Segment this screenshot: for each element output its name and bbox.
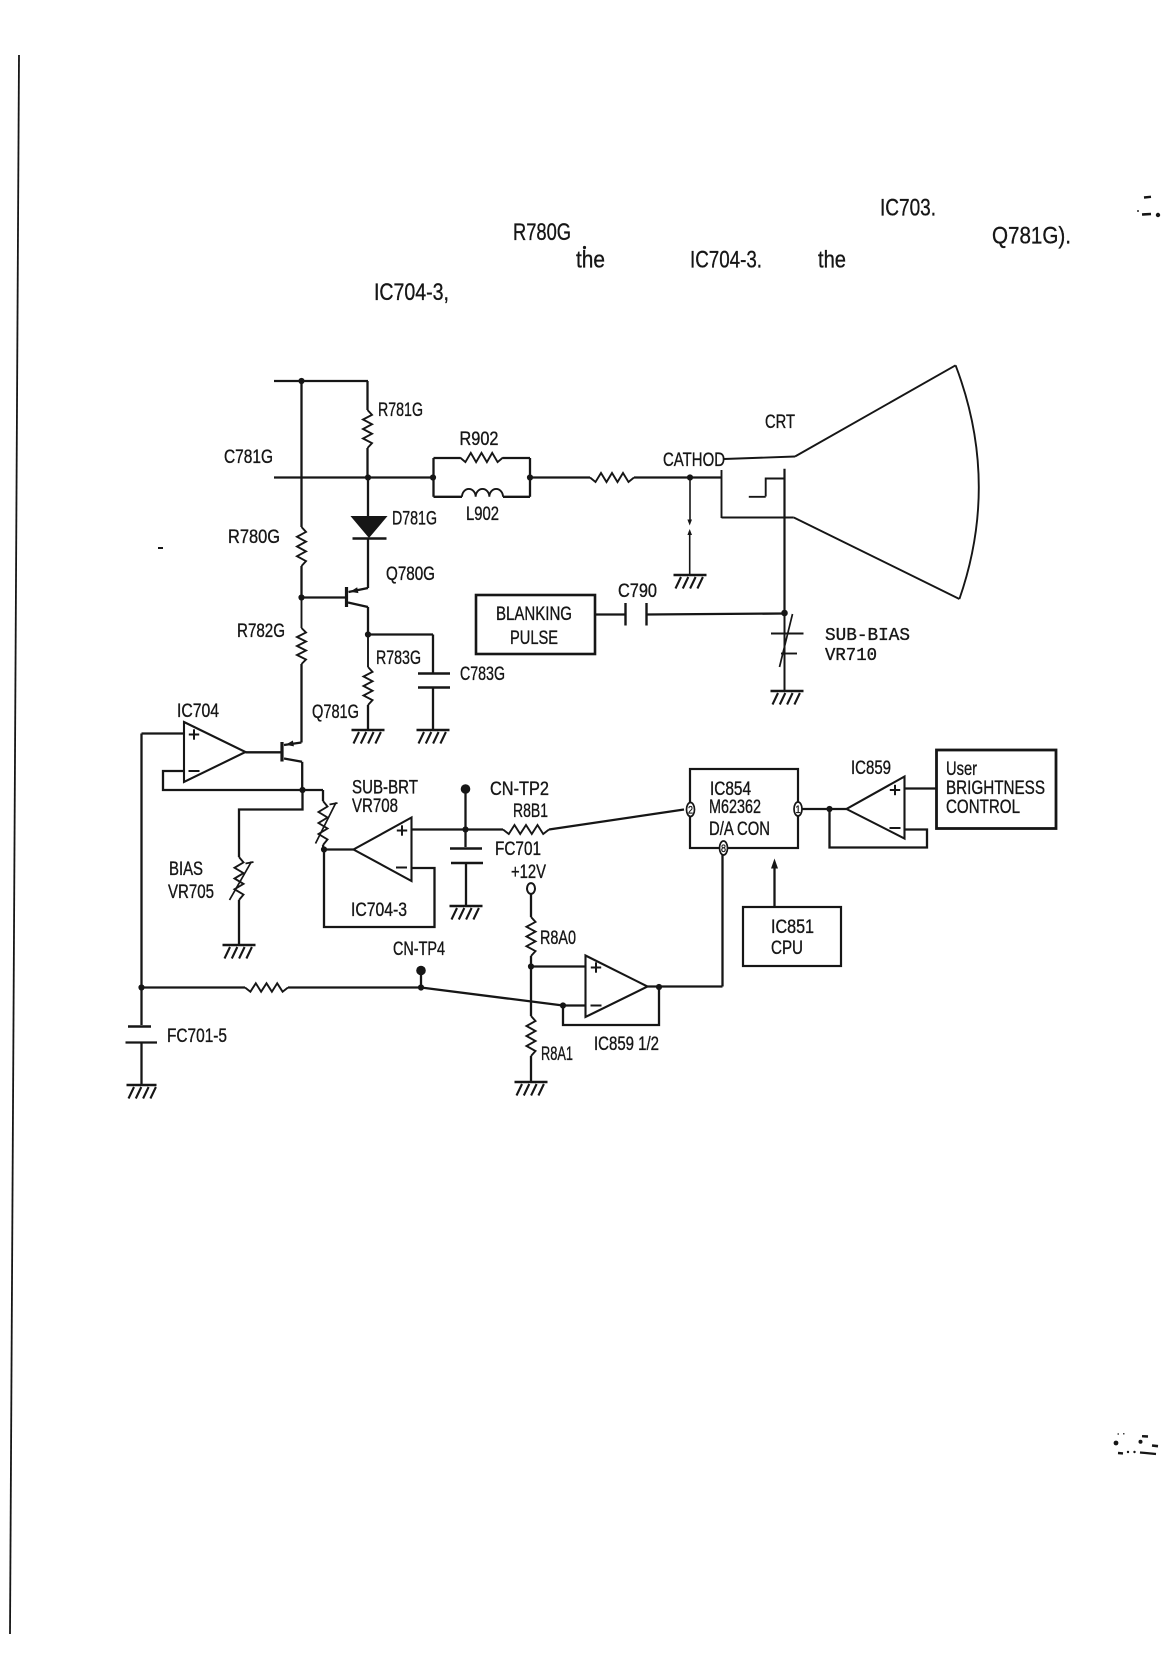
node CN-TP4 junction xyxy=(418,984,424,990)
svg-text:R780G: R780G xyxy=(228,527,280,548)
ground (VR710) xyxy=(771,690,804,693)
node CATHOD junction xyxy=(687,474,693,480)
CRT faceplate arc xyxy=(956,365,979,599)
wire IC859 +input xyxy=(905,787,937,789)
svg-text:2: 2 xyxy=(688,805,693,817)
svg-text:R782G: R782G xyxy=(237,621,285,642)
wire cathode node xyxy=(634,476,722,478)
svg-text:M62362: M62362 xyxy=(709,797,761,818)
transistor Q780G collector xyxy=(348,603,368,608)
resistor R781G xyxy=(363,410,372,448)
potentiometer VR708 xyxy=(319,801,328,845)
svg-text:Q780G: Q780G xyxy=(386,564,435,585)
pin 8 of IC854 xyxy=(720,841,728,855)
node top rail junction xyxy=(298,378,304,384)
wire IC851 arrow to IC854 xyxy=(773,864,775,907)
spark gap lower electrode xyxy=(687,529,692,535)
wire R8A1 lower lead xyxy=(530,1056,532,1082)
wire R8A0 to R8A1 xyxy=(530,967,532,1017)
transistor Q781G emitter xyxy=(284,743,301,746)
diode D781G xyxy=(353,517,386,537)
wire R902 upper lead left xyxy=(434,457,461,459)
node D781G anode junction xyxy=(365,474,371,480)
svg-text:D/A CON: D/A CON xyxy=(709,819,770,840)
wire R902 network left bracket xyxy=(432,458,434,497)
svg-text:CATHOD: CATHOD xyxy=(663,450,725,471)
svg-text:R781G: R781G xyxy=(378,400,423,421)
wire C790 to CRT lead xyxy=(647,614,785,615)
svg-text:IC704-3.: IC704-3. xyxy=(690,247,762,274)
resistor (cathode series) xyxy=(590,473,634,482)
svg-text:Q781G).: Q781G). xyxy=(992,223,1071,250)
node IC704-3 output junction xyxy=(321,846,327,852)
svg-text:SUB-BIAS: SUB-BIAS xyxy=(825,626,910,646)
svg-text:VR705: VR705 xyxy=(168,882,214,903)
wire IC859half feedback loop xyxy=(563,988,659,1025)
wire bottom rail left xyxy=(142,986,246,988)
wire IC704-3 +input xyxy=(412,828,467,830)
svg-text:R8A1: R8A1 xyxy=(541,1044,573,1065)
svg-text:D781G: D781G xyxy=(392,509,437,530)
op-amp IC704 xyxy=(184,722,246,782)
node Q780G base junction xyxy=(298,594,304,600)
speck marks top right xyxy=(1144,196,1151,199)
wire VR705 lower lead xyxy=(238,900,240,945)
node IC859half -input junction xyxy=(560,1002,566,1008)
node CN-TP2 junction xyxy=(462,826,468,832)
svg-text:Q781G: Q781G xyxy=(312,702,359,723)
wire CRT cathode lead xyxy=(783,469,785,613)
ground (cathode spark gap) xyxy=(674,574,707,577)
svg-text:IC704: IC704 xyxy=(177,701,219,722)
wire IC704-3 feedback loop xyxy=(324,850,435,928)
wire R782G lower lead xyxy=(300,664,302,743)
wire blanking to C790 xyxy=(595,613,626,615)
capacitor FC701-5 xyxy=(140,988,142,1026)
wire +12V lead xyxy=(530,893,532,917)
wire bottom rail right xyxy=(288,986,421,988)
wire R781G lower lead xyxy=(366,448,368,479)
inductor L902 xyxy=(462,489,503,497)
wire IC704 +input xyxy=(142,732,185,734)
capacitor C783G xyxy=(418,672,450,674)
capacitor FC701 xyxy=(464,830,466,848)
svg-text:CPU: CPU xyxy=(771,938,803,959)
svg-text:FC701-5: FC701-5 xyxy=(167,1026,227,1047)
wire R780G lower lead xyxy=(300,566,302,598)
diode D781G cathode bar xyxy=(353,537,387,540)
svg-text:BIAS: BIAS xyxy=(169,859,203,880)
capacitor C790 xyxy=(624,603,626,626)
svg-text:CRT: CRT xyxy=(765,412,795,433)
svg-text:R783G: R783G xyxy=(376,648,421,669)
wire IC859half +input xyxy=(531,965,586,967)
block User BRIGHTNESS CONTROL box xyxy=(937,750,1057,829)
wire IC859 feedback loop xyxy=(830,809,928,848)
ground (R8A1) xyxy=(515,1081,548,1084)
ground (C783G) xyxy=(417,729,450,732)
wire IC859half -input xyxy=(563,1004,586,1006)
svg-text:C783G: C783G xyxy=(460,664,505,685)
supply +12V terminal xyxy=(527,883,535,894)
node R8A0 junction xyxy=(528,963,534,969)
svg-text:8: 8 xyxy=(721,843,726,855)
wire VR708 lower lead xyxy=(322,845,325,850)
pin 1 of IC854 xyxy=(794,802,802,816)
wire left rail xyxy=(140,734,142,988)
wire IC859half output xyxy=(648,985,723,987)
wire pin8 riser xyxy=(721,855,723,987)
CRT funnel top edge xyxy=(795,365,956,456)
node R783G junction xyxy=(365,631,371,637)
wire L902 lower lead left xyxy=(434,496,463,498)
transistor Q780G base bar xyxy=(345,587,348,607)
wire IC859 output xyxy=(830,808,847,810)
wire IC704 output xyxy=(246,751,283,753)
svg-text:BRIGHTNESS: BRIGHTNESS xyxy=(946,778,1045,799)
node SUB-BIAS junction xyxy=(781,610,788,617)
transistor Q781G base bar xyxy=(280,742,283,762)
svg-text:1: 1 xyxy=(796,804,801,816)
svg-text:User: User xyxy=(946,759,978,780)
ground (VR705) xyxy=(223,944,256,947)
wire feedback to VR708 xyxy=(303,789,324,791)
svg-text:IC704-3,: IC704-3, xyxy=(374,279,449,306)
wire R8A0 lower lead xyxy=(530,956,532,967)
CRT neck bottom line xyxy=(722,517,794,519)
resistor R902 xyxy=(460,453,503,462)
resistor R783G xyxy=(367,635,369,668)
resistor (bottom rail) xyxy=(245,983,288,991)
op-amp IC859 xyxy=(847,777,905,839)
wire IC704-3 output xyxy=(324,848,354,850)
CRT neck left edge xyxy=(721,470,723,518)
wire R780G upper lead xyxy=(300,381,302,527)
svg-text:R780G: R780G xyxy=(513,219,571,246)
svg-text:CN-TP2: CN-TP2 xyxy=(490,779,549,800)
wire R902 network right bracket xyxy=(529,458,531,497)
resistor R8A0 xyxy=(527,917,536,956)
ground (FC701-5) xyxy=(127,1084,157,1087)
op-amp IC859 1/2 xyxy=(586,956,648,1018)
ground (FC701) xyxy=(450,905,483,908)
svg-text:VR710: VR710 xyxy=(825,646,877,666)
wire D781G cathode lead xyxy=(367,539,369,589)
wire C781G node xyxy=(274,476,433,478)
block BLANKING PULSE box xyxy=(476,595,595,654)
svg-text:+12V: +12V xyxy=(511,862,546,883)
wire R781G upper lead xyxy=(366,381,368,410)
resistor R782G xyxy=(301,598,303,629)
CRT funnel bottom edge xyxy=(794,518,960,600)
speck marks bottom right xyxy=(1114,1441,1119,1446)
transistor Q781G collector xyxy=(284,759,302,762)
wire R783G junction to C783G xyxy=(368,633,433,635)
speck dot over the xyxy=(583,246,586,249)
node IC859 input junction xyxy=(826,806,832,812)
svg-text:the: the xyxy=(818,247,846,274)
wire to cathode resistor xyxy=(530,476,590,478)
svg-text:PULSE: PULSE xyxy=(510,628,558,649)
node left rail bottom junction xyxy=(138,984,144,990)
svg-text:VR708: VR708 xyxy=(352,796,398,817)
svg-text:IC704-3: IC704-3 xyxy=(351,900,407,921)
test point CN-TP2 xyxy=(461,784,471,794)
wire CN-TP4 to -input xyxy=(421,988,563,1006)
CRT cathode electrode xyxy=(766,479,785,497)
test point CN-TP4 xyxy=(416,966,426,976)
svg-text:R8A0: R8A0 xyxy=(540,928,576,949)
svg-text:R902: R902 xyxy=(460,429,499,450)
svg-text:BLANKING: BLANKING xyxy=(496,604,572,625)
svg-text:IC859 1/2: IC859 1/2 xyxy=(594,1034,659,1055)
wire D781G anode lead xyxy=(367,479,369,518)
wire L902 lower lead right xyxy=(503,496,530,498)
svg-text:IC859: IC859 xyxy=(851,758,891,779)
resistor R780G xyxy=(297,527,306,566)
svg-text:IC851: IC851 xyxy=(771,917,814,938)
svg-text:C790: C790 xyxy=(618,581,657,602)
wire IC704 -input loop xyxy=(163,771,303,790)
spark gap upper electrode xyxy=(689,480,691,520)
wire top rail xyxy=(274,380,368,382)
node R902 right junction xyxy=(527,474,533,480)
wire R783G lower lead xyxy=(367,705,369,730)
svg-text:R8B1: R8B1 xyxy=(513,801,548,822)
node IC704 feedback junction xyxy=(299,787,305,793)
svg-text:CONTROL: CONTROL xyxy=(946,797,1020,818)
node R902 left junction xyxy=(430,474,436,480)
transistor Q780G emitter xyxy=(349,588,369,592)
svg-text:CN-TP4: CN-TP4 xyxy=(393,939,445,960)
wire pin1 to IC859 xyxy=(802,808,830,810)
potentiometer VR710 xyxy=(784,613,786,691)
svg-text:the: the xyxy=(576,247,605,274)
svg-text:FC701: FC701 xyxy=(495,839,541,860)
node IC859half output junction xyxy=(656,984,662,990)
block IC851 box xyxy=(743,907,841,966)
resistor R8A1 xyxy=(527,1016,536,1056)
CRT neck top line xyxy=(724,457,795,460)
pin 2 of IC854 xyxy=(687,803,695,817)
ground (R783G) xyxy=(352,729,385,732)
wire R902 upper lead right xyxy=(503,457,530,459)
resistor R8B1 xyxy=(466,828,504,830)
wire BIAS branch xyxy=(239,790,303,857)
wire R8B1 to pin 2 xyxy=(549,810,684,830)
block IC854 box xyxy=(690,769,798,848)
speck mid left xyxy=(158,547,163,549)
op-amp IC704-3 xyxy=(354,818,412,882)
svg-text:IC703.: IC703. xyxy=(880,195,936,222)
svg-text:L902: L902 xyxy=(466,504,499,525)
svg-text:C781G: C781G xyxy=(224,447,273,468)
potentiometer VR705 xyxy=(235,857,244,900)
wire Q780G base lead xyxy=(302,596,346,598)
